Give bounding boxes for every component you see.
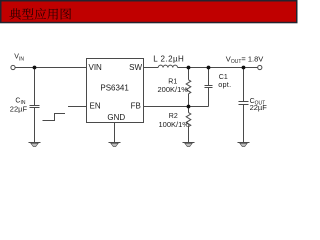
svg-text:EN: EN — [90, 102, 101, 111]
wire CIN lower lead — [34, 108, 36, 143]
capacitor C1 plates — [205, 86, 213, 88]
svg-text:SW: SW — [129, 63, 142, 72]
svg-text:VIN: VIN — [89, 63, 103, 72]
node VIN terminal — [11, 65, 15, 69]
ground for R2 — [183, 143, 195, 147]
junction COUT tap — [242, 66, 246, 70]
svg-text:GND: GND — [107, 113, 125, 122]
ground for CIN — [29, 143, 41, 147]
wire VIN input — [15, 67, 86, 69]
title banner — [1, 1, 297, 23]
wire C1 lower lead — [208, 88, 210, 107]
wire R1 lower lead — [188, 94, 190, 107]
svg-text:FB: FB — [131, 102, 141, 111]
title text 典型应用图 — [9, 8, 71, 20]
wire CIN upper lead — [34, 68, 36, 106]
wire EN — [68, 106, 87, 108]
wire COUT upper lead — [243, 68, 245, 102]
svg-text:opt.: opt. — [218, 80, 231, 89]
svg-text:100K/1%: 100K/1% — [159, 120, 190, 129]
resistor R2 zigzag — [186, 113, 191, 127]
svg-text:200K/1%: 200K/1% — [158, 85, 189, 94]
capacitor CIN plates — [30, 106, 40, 108]
ground for IC GND pin — [109, 143, 121, 147]
node VOUT terminal — [258, 65, 262, 69]
junction FB node — [187, 105, 191, 109]
EN step signal symbol — [43, 114, 66, 121]
junction R1 tap — [187, 66, 191, 70]
wire R2 lower lead — [188, 127, 190, 143]
wire C1 upper lead — [208, 68, 210, 86]
wire R1 upper lead — [188, 68, 190, 80]
wire R2 upper lead — [188, 107, 190, 113]
junction CIN tap — [33, 66, 37, 70]
svg-text:22µF: 22µF — [10, 104, 28, 113]
wire GND pin lead — [114, 123, 116, 143]
op-amp U1 PS6341 IC box — [87, 59, 144, 123]
wire FB rail — [144, 106, 209, 108]
inductor L1 — [158, 65, 177, 67]
svg-text:22µF: 22µF — [250, 103, 268, 112]
junction C1 tap — [207, 66, 211, 70]
wire SW to inductor — [144, 67, 159, 69]
wire COUT lower lead — [243, 105, 245, 143]
resistor R1 zigzag — [186, 80, 191, 94]
capacitor COUT plates — [239, 102, 249, 105]
ground for COUT — [238, 143, 250, 147]
svg-text:PS6341: PS6341 — [100, 84, 129, 93]
svg-text:L 2.2µH: L 2.2µH — [153, 55, 184, 64]
wire output rail — [178, 67, 258, 69]
